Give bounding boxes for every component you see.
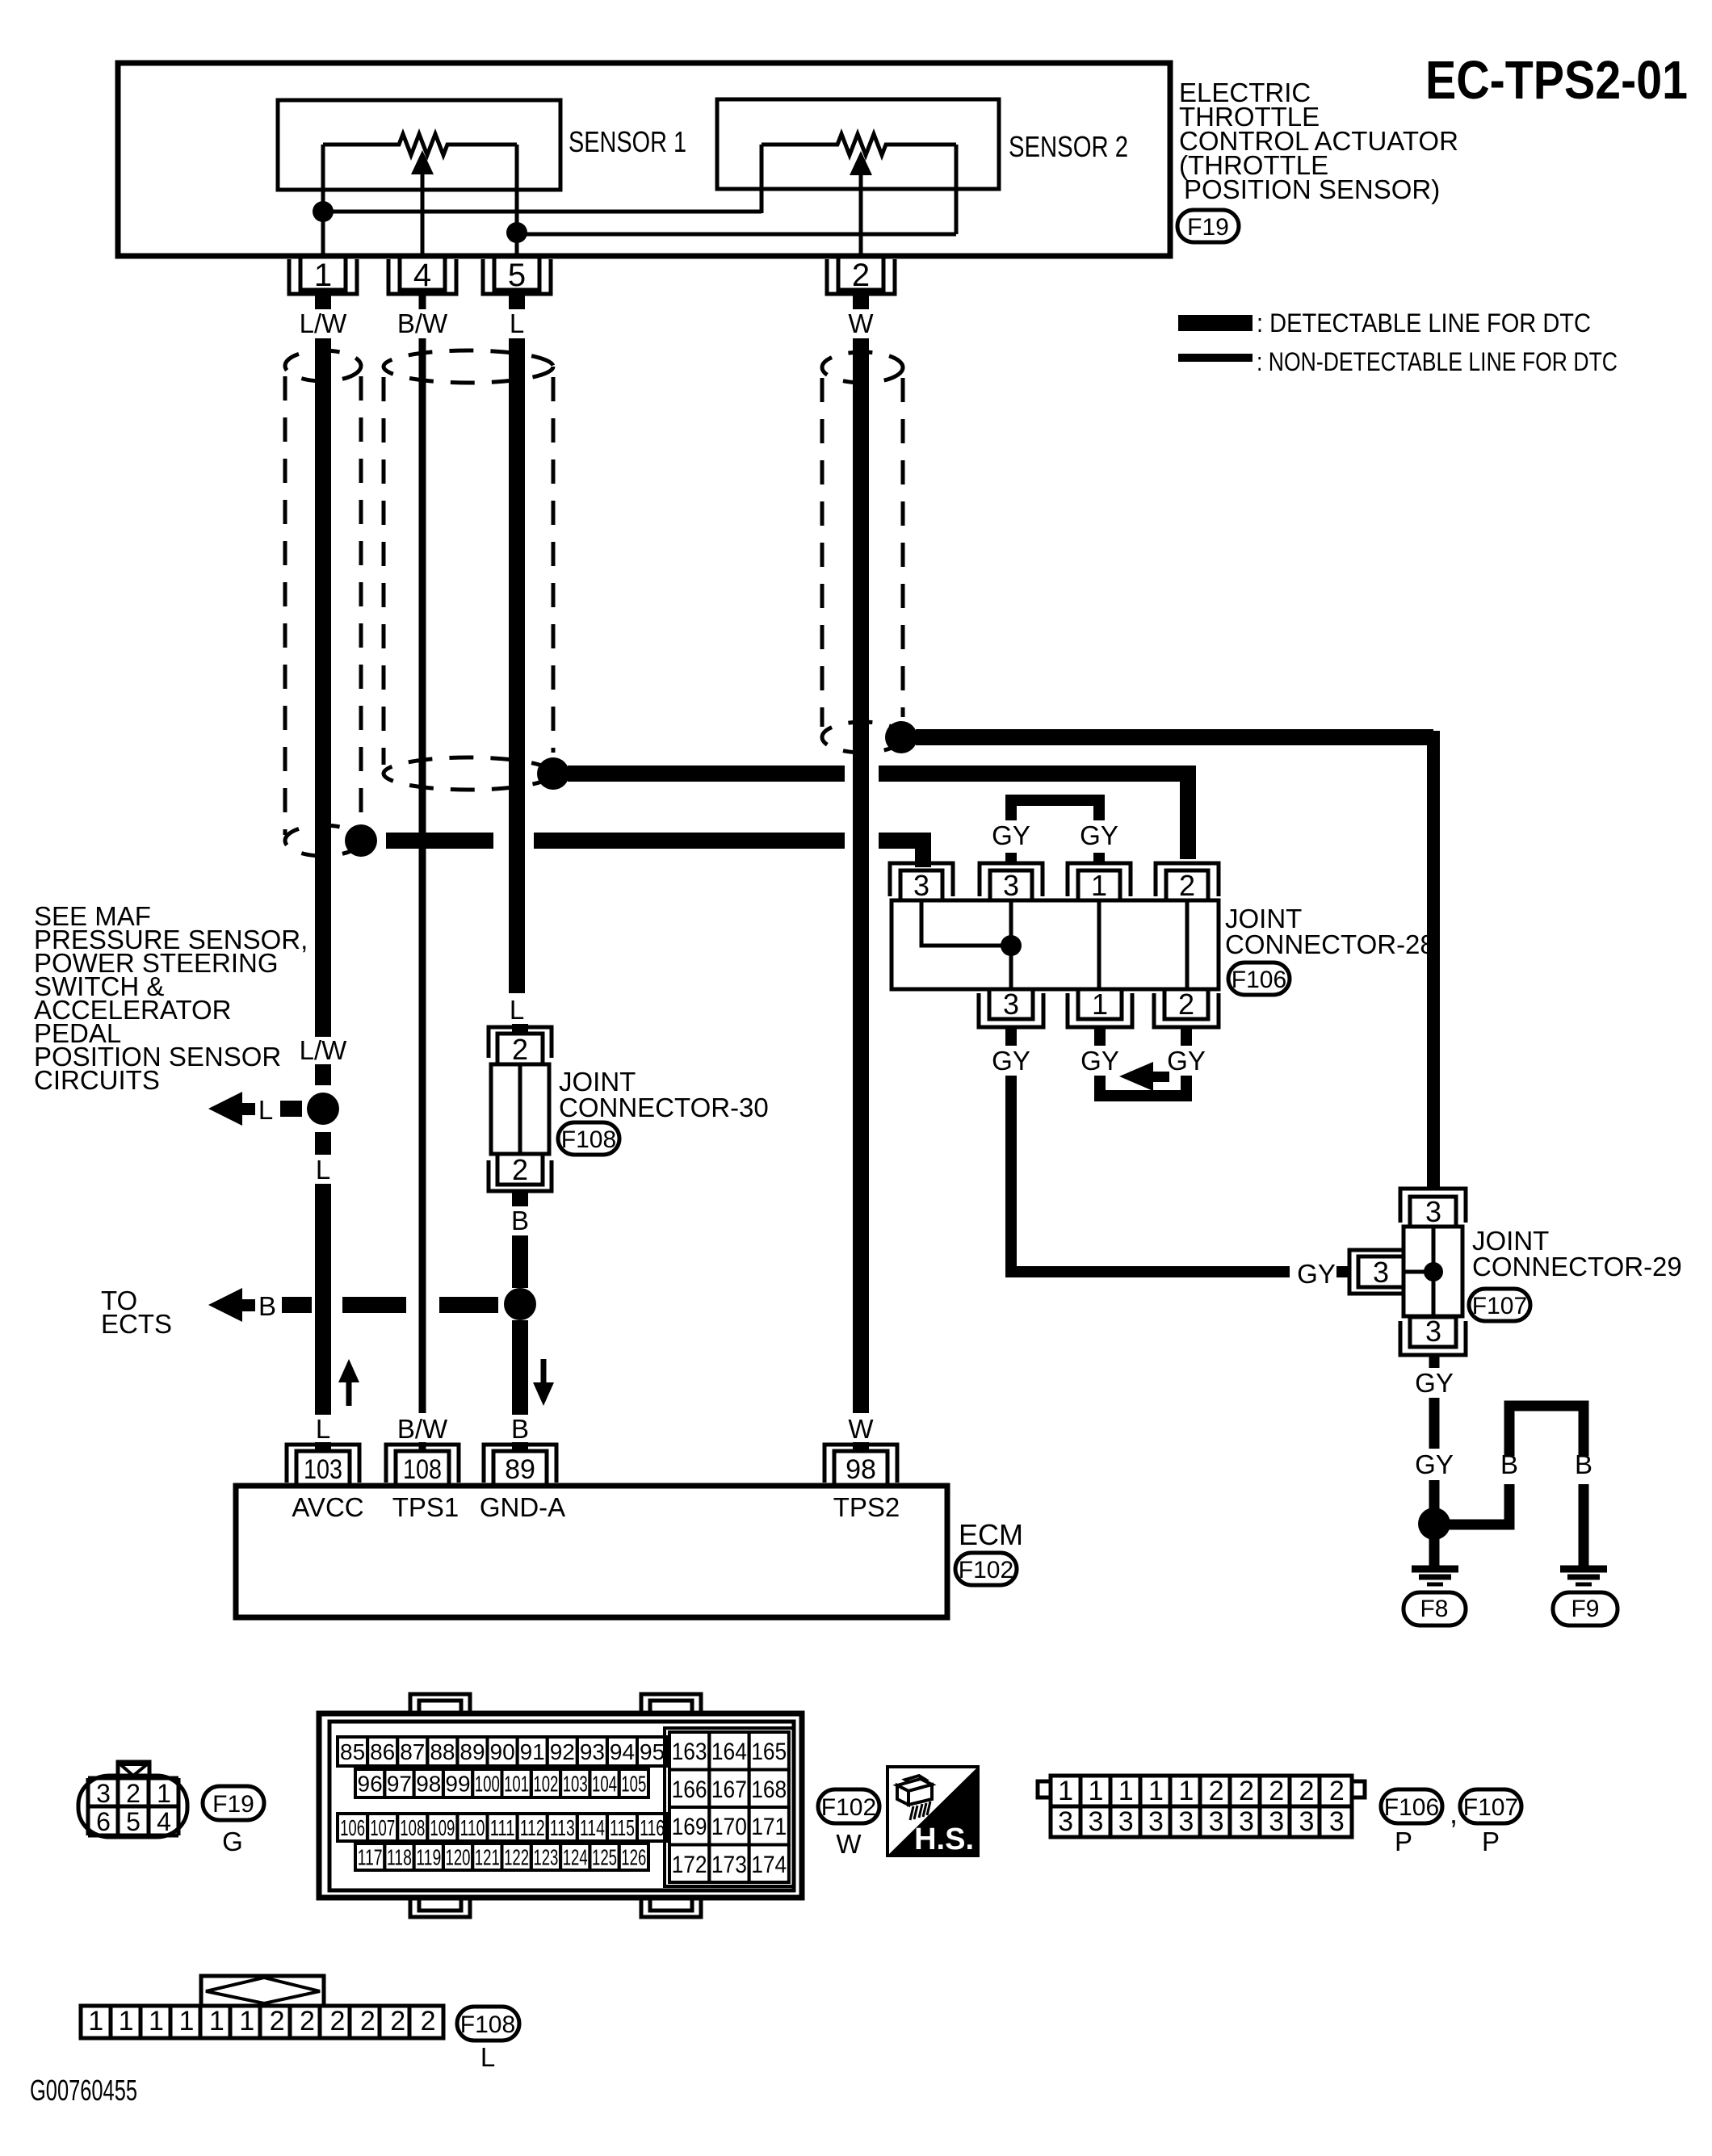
svg-text:3: 3 [1148, 1806, 1164, 1837]
svg-text:CONNECTOR-29: CONNECTOR-29 [1472, 1252, 1682, 1281]
svg-text:B: B [258, 1291, 276, 1321]
svg-text:4: 4 [413, 258, 431, 293]
svg-text:93: 93 [580, 1739, 605, 1764]
svg-text:B: B [511, 1206, 529, 1235]
HS logo [887, 1767, 978, 1856]
svg-text:87: 87 [400, 1739, 425, 1764]
svg-text:W: W [836, 1829, 862, 1859]
svg-text:2: 2 [512, 1033, 528, 1066]
JC28 pin 2 bottom [1154, 988, 1219, 1027]
F19 face color label G [222, 1827, 243, 1856]
JC28 GY label bottom 1 [992, 1046, 1030, 1076]
branch label L [258, 1095, 273, 1125]
F106 face color label P [1395, 1827, 1412, 1856]
wire shield cyl1 to JC28 pin3 [386, 841, 923, 867]
svg-text:86: 86 [370, 1739, 395, 1764]
JC28 GY label top right [1080, 820, 1118, 850]
joint connector-30 body F108 [491, 1064, 549, 1154]
connector badge F106 [1228, 963, 1290, 995]
svg-text:2: 2 [329, 2006, 345, 2036]
wire label B below JC30 [511, 1206, 529, 1235]
svg-text:1: 1 [239, 2006, 254, 2036]
svg-text:EC-TPS2-01: EC-TPS2-01 [1425, 50, 1688, 111]
wire pin5 to dotB [515, 233, 519, 256]
shield node dot cyl3 [885, 721, 917, 753]
svg-text:2: 2 [1209, 1776, 1224, 1806]
TO ECTS text [101, 1286, 172, 1339]
svg-text:1: 1 [178, 2006, 194, 2036]
stub pin1 [315, 294, 331, 309]
node dot B (pin5 branch) [506, 222, 527, 243]
ECM box [236, 1486, 947, 1617]
svg-text:88: 88 [430, 1739, 455, 1764]
svg-text:3: 3 [1003, 869, 1019, 902]
svg-text:2: 2 [1269, 1776, 1284, 1806]
svg-text:97: 97 [387, 1772, 412, 1797]
wire dotB to sensor2 right [517, 233, 956, 237]
ground badge F9 [1553, 1592, 1618, 1625]
ground symbol F8 [1412, 1569, 1458, 1584]
shield cylinder 3 sides [822, 378, 903, 727]
svg-text:111: 111 [490, 1815, 515, 1840]
ECM pin 103 [287, 1445, 359, 1486]
svg-text:110: 110 [460, 1815, 485, 1840]
node dot B branch [504, 1288, 536, 1320]
connector badge F107 face [1460, 1789, 1521, 1823]
stub pin2 [853, 294, 869, 309]
svg-text:L: L [316, 1155, 330, 1185]
svg-text:GY: GY [1415, 1449, 1454, 1479]
svg-text:2: 2 [300, 2006, 315, 2036]
svg-text:2: 2 [421, 2006, 436, 2036]
svg-text:121: 121 [475, 1845, 500, 1870]
sensor1 right leg wire [515, 145, 519, 233]
svg-text:100: 100 [475, 1772, 500, 1797]
connector badge F19 face [203, 1786, 264, 1820]
svg-text:3: 3 [1058, 1806, 1073, 1837]
svg-text:2: 2 [1178, 988, 1194, 1021]
JC28 internal wiring [921, 900, 1187, 989]
svg-text:173: 173 [711, 1852, 747, 1878]
sensor 1 label [569, 125, 686, 158]
potentiometer sensor 1 [323, 134, 517, 155]
wiper arrow sensor 1 [411, 150, 434, 256]
svg-text:169: 169 [672, 1814, 707, 1840]
F106 face numbers [1058, 1776, 1345, 1837]
branch arrow L left [208, 1092, 255, 1126]
wire W vertical (detectable) [853, 338, 869, 1451]
JC28 pin 1 bottom [1068, 988, 1132, 1027]
svg-text:113: 113 [550, 1815, 575, 1840]
JC28 bottom stubs [1011, 1027, 1186, 1046]
shield cylinder 1 sides [285, 376, 361, 835]
svg-text:96: 96 [358, 1772, 383, 1797]
wire color label L [510, 308, 524, 338]
svg-text:B: B [511, 1414, 529, 1444]
B label right [1575, 1449, 1592, 1479]
wire dot to B bracket [1449, 1406, 1584, 1566]
svg-text:126: 126 [621, 1845, 646, 1870]
shield cylinder 3 top ellipse [822, 352, 903, 383]
ground symbol F9 [1560, 1569, 1607, 1584]
shield cylinder 3 bottom ellipse [822, 722, 903, 753]
wire GY below JC29 [1429, 1355, 1440, 1509]
ECM pin label TPS2 [833, 1492, 900, 1522]
svg-text:90: 90 [490, 1739, 515, 1764]
svg-text:GY: GY [1297, 1259, 1336, 1289]
sensor 1 box [278, 100, 560, 190]
svg-text:F102: F102 [821, 1794, 876, 1821]
comma between badges [1450, 1797, 1458, 1830]
ECM pin label TPS1 [392, 1492, 459, 1522]
svg-text:F106: F106 [1384, 1794, 1439, 1821]
svg-text:CIRCUITS: CIRCUITS [34, 1065, 160, 1095]
svg-text:3: 3 [1088, 1806, 1103, 1837]
ECM pin label GND-A [480, 1492, 565, 1522]
potentiometer sensor 2 [762, 134, 956, 155]
svg-text:: NON-DETECTABLE LINE FOR DTC: : NON-DETECTABLE LINE FOR DTC [1257, 347, 1618, 376]
svg-text:166: 166 [672, 1776, 707, 1803]
wire label L above JC30 [505, 995, 529, 1025]
svg-text:1: 1 [119, 2006, 134, 2036]
svg-text:GY: GY [1080, 820, 1118, 850]
svg-text:1: 1 [209, 2006, 224, 2036]
svg-text:118: 118 [387, 1845, 412, 1870]
svg-text:F19: F19 [212, 1791, 254, 1818]
svg-text:3: 3 [1178, 1806, 1194, 1837]
svg-text:F19: F19 [1187, 214, 1229, 241]
wire color label L/W [300, 308, 348, 338]
svg-text:5: 5 [126, 1807, 141, 1836]
svg-text:L: L [480, 2042, 495, 2072]
svg-text:2: 2 [1179, 869, 1195, 902]
F19 connector face [78, 1762, 187, 1837]
throttle actuator box F19 [118, 63, 1170, 256]
svg-text:GY: GY [1080, 1046, 1119, 1076]
svg-text:103: 103 [304, 1454, 342, 1485]
wire shield cyl2 to JC28 pin2 [568, 774, 1188, 859]
shield node dot cyl2 [537, 757, 569, 790]
svg-text:F8: F8 [1420, 1596, 1448, 1622]
shield cylinder 1 bottom ellipse [285, 825, 361, 856]
ECM label [959, 1518, 1023, 1551]
title EC-TPS2-01 [1425, 50, 1688, 111]
svg-text:115: 115 [610, 1815, 635, 1840]
svg-text:L: L [316, 1414, 330, 1444]
ECM face pin grid row 106-116 [338, 1814, 667, 1841]
svg-text:4: 4 [157, 1807, 171, 1836]
shield cylinder 2 sides [384, 377, 553, 765]
svg-text:W: W [848, 1414, 874, 1444]
svg-text:F108: F108 [460, 2011, 515, 2038]
svg-text:L: L [510, 308, 524, 338]
wire color label B/W [397, 308, 448, 338]
svg-text:105: 105 [621, 1772, 646, 1797]
ELECTRIC THROTTLE text [1179, 78, 1458, 204]
svg-text:GY: GY [992, 1046, 1030, 1076]
pin 4 [388, 256, 456, 294]
svg-text:2: 2 [852, 258, 870, 293]
JC28 wire pin3 to JC29 [1011, 1076, 1351, 1272]
svg-text:3: 3 [1373, 1256, 1389, 1289]
GY label left of JC29 [1297, 1259, 1336, 1289]
sensor1 left leg wire [321, 145, 325, 212]
JC28 GY label top left [992, 820, 1030, 850]
wire pin1 to dotA [321, 212, 325, 256]
svg-text:2: 2 [1299, 1776, 1315, 1806]
connector badge F106 face [1381, 1789, 1442, 1823]
svg-text:B: B [1500, 1449, 1518, 1479]
wire label L mid [316, 1155, 330, 1185]
svg-text:POSITION SENSOR): POSITION SENSOR) [1184, 174, 1440, 204]
legend detectable bar [1178, 308, 1591, 338]
legend non-detectable bar [1178, 347, 1618, 376]
stub pin5 [509, 294, 525, 309]
svg-text:L/W: L/W [300, 1035, 348, 1065]
svg-text:6: 6 [96, 1807, 111, 1836]
sensor 2 label [1009, 130, 1128, 163]
JC28 bracket pin1-pin2 bottom [1100, 1076, 1186, 1101]
F107 face color label P [1482, 1827, 1500, 1856]
connector badge F102 face [818, 1789, 879, 1823]
stub into JC30 [512, 1024, 528, 1034]
JC28 pin 3 top [980, 863, 1043, 902]
sensor2 left leg wire [760, 145, 764, 213]
wire color label W [848, 308, 874, 338]
svg-text:3: 3 [1329, 1806, 1345, 1837]
svg-text:102: 102 [533, 1772, 558, 1797]
svg-text:98: 98 [846, 1454, 876, 1485]
B label left [1500, 1449, 1518, 1479]
ECM face color label W [836, 1829, 862, 1859]
svg-text:P: P [1395, 1827, 1412, 1856]
GY label above ground [1415, 1449, 1454, 1479]
ground badge F8 [1404, 1592, 1466, 1625]
F106 F107 connector face [1038, 1776, 1365, 1837]
svg-text:SENSOR 2: SENSOR 2 [1009, 130, 1128, 163]
svg-text:91: 91 [520, 1739, 545, 1764]
svg-text:168: 168 [751, 1776, 787, 1803]
svg-text:F107: F107 [1472, 1293, 1527, 1319]
branch arrow B left [208, 1288, 255, 1322]
svg-text:TPS1: TPS1 [392, 1492, 459, 1522]
GY label below JC29 [1415, 1368, 1454, 1398]
svg-text:AVCC: AVCC [292, 1492, 363, 1522]
svg-text:163: 163 [672, 1739, 707, 1765]
branch label B [258, 1291, 276, 1321]
svg-text:H.S.: H.S. [914, 1823, 974, 1856]
JC28 pin 3 bottom [979, 988, 1043, 1027]
flow arrow down on B wire [533, 1359, 554, 1406]
svg-text:B/W: B/W [397, 308, 448, 338]
svg-text:1: 1 [1088, 1776, 1103, 1806]
wire shield W to JC29 [916, 731, 1433, 1189]
stub pin4 [419, 294, 426, 309]
svg-text:L: L [510, 995, 524, 1025]
svg-text:108: 108 [400, 1815, 425, 1840]
svg-text:1: 1 [88, 2006, 103, 2036]
svg-text:170: 170 [711, 1814, 747, 1840]
svg-text:103: 103 [563, 1772, 588, 1797]
svg-text:104: 104 [592, 1772, 617, 1797]
wire label B bottom [511, 1414, 529, 1444]
wire L vertical pin5 (detectable) [509, 338, 525, 993]
wire B/W vertical (non-detectable) [419, 338, 426, 1451]
svg-text:112: 112 [520, 1815, 545, 1840]
node dot ground junction [1418, 1508, 1450, 1540]
svg-text:G: G [222, 1827, 243, 1856]
svg-text:89: 89 [505, 1454, 535, 1485]
svg-text:1: 1 [1178, 1776, 1194, 1806]
node dot A (pin1 branch) [313, 201, 334, 222]
svg-text:P: P [1482, 1827, 1500, 1856]
JC28 pin 1 top [1068, 863, 1131, 902]
svg-text:L/W: L/W [300, 308, 348, 338]
svg-text:1: 1 [1148, 1776, 1164, 1806]
svg-text:F102: F102 [959, 1557, 1013, 1583]
svg-text:123: 123 [533, 1845, 558, 1870]
svg-text:117: 117 [358, 1845, 383, 1870]
svg-text:114: 114 [580, 1815, 605, 1840]
svg-text:ECTS: ECTS [101, 1309, 172, 1339]
svg-text:98: 98 [416, 1772, 441, 1797]
svg-text:3: 3 [1299, 1806, 1315, 1837]
svg-text:3: 3 [913, 869, 929, 902]
ECM connector face F102 [319, 1694, 802, 1917]
wire dot to ground F8 [1429, 1538, 1440, 1567]
sensor2 right leg wire [955, 145, 959, 234]
svg-text:85: 85 [340, 1739, 365, 1764]
wire L/W vertical (detectable) [315, 338, 331, 1451]
pin 5 [483, 256, 551, 294]
svg-text:125: 125 [592, 1845, 617, 1870]
svg-text:2: 2 [512, 1153, 528, 1186]
JC28 pin 3 top-left [890, 863, 953, 902]
svg-text:3: 3 [1269, 1806, 1284, 1837]
svg-text:106: 106 [340, 1815, 365, 1840]
svg-text:F106: F106 [1232, 967, 1286, 993]
svg-text:GND-A: GND-A [480, 1492, 565, 1522]
svg-text:164: 164 [711, 1739, 747, 1765]
JC29 pin 3 left [1349, 1250, 1405, 1294]
connector badge F102 [955, 1553, 1017, 1585]
svg-text:1: 1 [314, 258, 332, 293]
svg-text:3: 3 [1425, 1315, 1441, 1348]
F108 face numbers [88, 2006, 435, 2036]
shield cylinder 1 top ellipse [285, 350, 361, 381]
svg-text:2: 2 [126, 1779, 141, 1808]
F108 face color label L [480, 2042, 495, 2072]
JC28 arrow left [1119, 1062, 1169, 1091]
shield cylinder 2 top ellipse [384, 350, 553, 383]
svg-text:1: 1 [1092, 988, 1108, 1021]
svg-text:2: 2 [270, 2006, 285, 2036]
svg-text:B/W: B/W [397, 1414, 448, 1444]
svg-text:F107: F107 [1463, 1794, 1518, 1821]
svg-text:1: 1 [149, 2006, 164, 2036]
wire dotA to sensor2 left [323, 210, 762, 214]
JC28 pin 2 top [1156, 863, 1219, 902]
svg-text:,: , [1450, 1797, 1458, 1830]
svg-text:B: B [1575, 1449, 1592, 1479]
ECM face pin grid row 117-126 [355, 1844, 648, 1870]
joint connector-29 body F107 [1404, 1227, 1462, 1316]
svg-text:1: 1 [1091, 869, 1107, 902]
svg-text:120: 120 [446, 1845, 471, 1870]
SEE MAF text block [34, 901, 308, 1095]
shield node dot cyl1 [345, 824, 377, 857]
svg-text:89: 89 [459, 1739, 485, 1764]
branch dash L [280, 1101, 302, 1117]
svg-text:2: 2 [390, 2006, 405, 2036]
svg-text:172: 172 [672, 1852, 707, 1878]
svg-text:95: 95 [640, 1739, 665, 1764]
JC30 pin 2 top [489, 1027, 552, 1066]
connector badge F108 face [457, 2007, 519, 2041]
svg-text:5: 5 [508, 258, 526, 293]
ECM face pin grid row 85-95 [338, 1737, 667, 1766]
JC28 GY label bottom 3 [1167, 1046, 1206, 1076]
svg-text:116: 116 [640, 1815, 665, 1840]
svg-text:CONNECTOR-30: CONNECTOR-30 [559, 1093, 769, 1122]
svg-text:CONNECTOR-28: CONNECTOR-28 [1225, 929, 1435, 959]
svg-text:171: 171 [751, 1814, 787, 1840]
pin 2 [827, 256, 895, 294]
svg-text:3: 3 [1239, 1806, 1254, 1837]
svg-text:F108: F108 [561, 1126, 616, 1153]
svg-text:W: W [848, 308, 874, 338]
wire label L bottom [316, 1414, 330, 1444]
JC28 GY jumper top [1011, 800, 1099, 863]
JC29 pin 3 top [1400, 1189, 1466, 1228]
svg-text:F9: F9 [1571, 1596, 1599, 1622]
svg-text:L: L [258, 1095, 273, 1125]
JOINT CONNECTOR-28 text [1225, 904, 1435, 959]
svg-text:2: 2 [1329, 1776, 1345, 1806]
svg-text:165: 165 [751, 1739, 787, 1765]
ECM face pin grid row 96-105 [355, 1769, 648, 1797]
svg-text:3: 3 [1425, 1195, 1441, 1228]
wire label L/W mid [300, 1035, 348, 1065]
svg-text:94: 94 [610, 1739, 635, 1764]
pin 1 [289, 256, 357, 294]
svg-text:GY: GY [1415, 1368, 1454, 1398]
JC30 JOINT CONNECTOR-30 text [559, 1067, 769, 1122]
svg-text:174: 174 [751, 1852, 787, 1878]
node dot L branch [307, 1093, 339, 1125]
svg-text:1: 1 [1118, 1776, 1134, 1806]
svg-text:92: 92 [550, 1739, 575, 1764]
svg-text:2: 2 [360, 2006, 376, 2036]
svg-text:3: 3 [1118, 1806, 1134, 1837]
ECM face pin grid right 163-174 [665, 1728, 794, 1886]
connector badge F19 [1177, 210, 1239, 242]
svg-text:3: 3 [96, 1779, 111, 1808]
wiper arrow sensor 2 [850, 151, 872, 256]
svg-text:TPS2: TPS2 [833, 1492, 900, 1522]
flow arrow up on L wire [338, 1359, 359, 1406]
svg-text:GY: GY [1167, 1046, 1206, 1076]
shield cylinder 2 bottom ellipse [384, 757, 553, 790]
svg-text:107: 107 [370, 1815, 395, 1840]
JC28 GY label bottom 2 [1080, 1046, 1119, 1076]
svg-text:101: 101 [504, 1772, 529, 1797]
ECM pin label AVCC [292, 1492, 363, 1522]
svg-text:GY: GY [992, 820, 1030, 850]
wire label B/W bottom [396, 1413, 449, 1444]
sensor 2 box [717, 99, 999, 189]
ECM pin 98 [825, 1445, 897, 1486]
